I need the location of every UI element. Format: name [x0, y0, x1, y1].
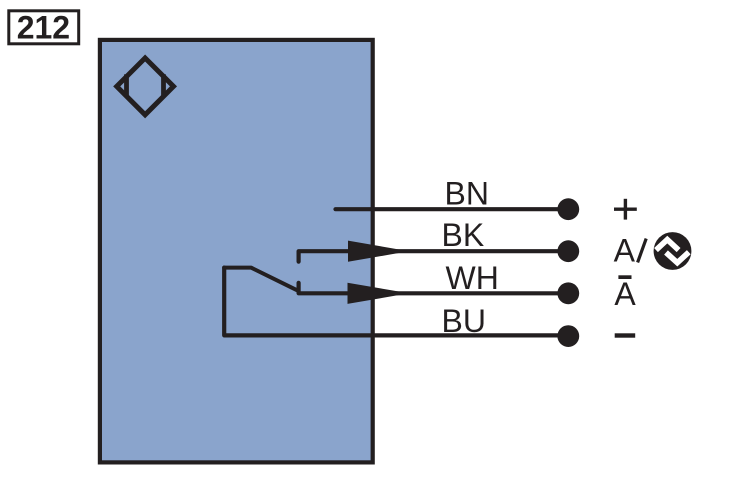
- slash after A: [638, 239, 647, 263]
- sensor body: [100, 40, 373, 463]
- output label A-bar: [614, 275, 636, 312]
- magnetic sensor symbol (diamond): [117, 58, 174, 115]
- svg-text:A: A: [614, 276, 636, 312]
- complementary switching icon: [654, 232, 692, 270]
- changeover switch lever: [224, 268, 297, 291]
- wire BK with contact stub: [299, 251, 569, 261]
- wire BU (common return): [224, 268, 568, 336]
- terminal node BU: [557, 325, 579, 347]
- wire WH with contact stub: [299, 283, 569, 293]
- terminal node BK: [557, 240, 579, 262]
- terminal node WH: [557, 282, 579, 304]
- arrow on wire WH: [348, 283, 410, 304]
- arrow on wire BK: [348, 241, 409, 262]
- plus terminal symbol: [614, 199, 637, 220]
- svg-text:WH: WH: [446, 260, 499, 296]
- terminal node BN: [557, 198, 579, 220]
- figure number box 212: [9, 9, 79, 45]
- svg-text:BU: BU: [442, 303, 486, 339]
- svg-text:212: 212: [17, 9, 70, 45]
- svg-text:BN: BN: [445, 175, 489, 211]
- minus terminal symbol: [615, 333, 636, 337]
- svg-text:BK: BK: [442, 217, 485, 253]
- svg-text:A: A: [614, 232, 636, 268]
- wire BN: [336, 207, 569, 211]
